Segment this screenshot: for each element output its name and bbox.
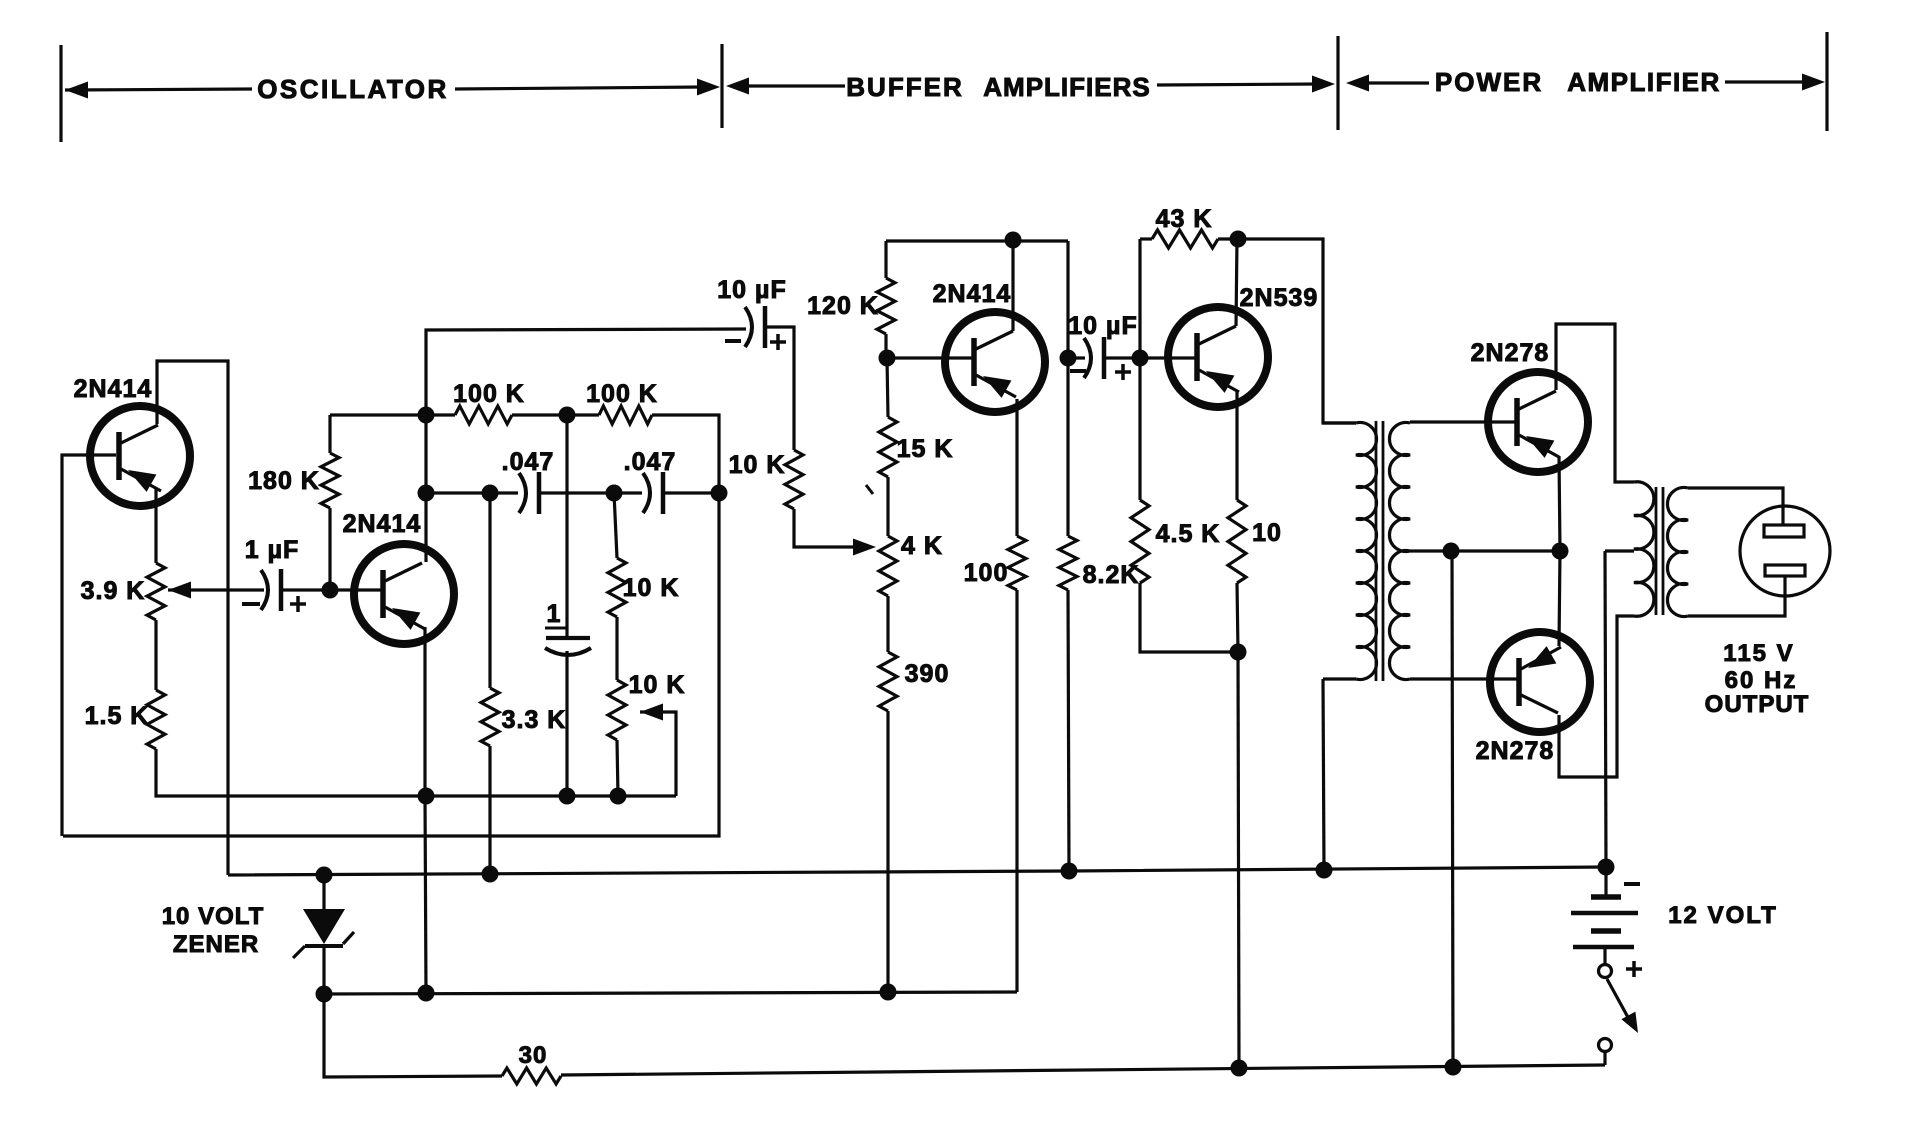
- node dot Q4 emitter node: [1230, 644, 1247, 661]
- node dot feedback corner: [711, 485, 728, 502]
- wire Q5 collector to T2: [1556, 324, 1634, 482]
- wire Q6 emitter up: [1559, 551, 1560, 646]
- resistor 3.3K: [481, 688, 499, 746]
- wire switch to rail5: [1603, 1052, 1606, 1065]
- wire between 100Ks: [512, 413, 599, 416]
- wire phase-shift line: [426, 491, 518, 494]
- resistor 180K: [321, 415, 339, 590]
- node dot T1 primary bottom: [1316, 862, 1333, 879]
- wire 10K to 4K wiper: [794, 509, 853, 547]
- label 2N278 (Q6): [1476, 737, 1555, 765]
- label 115 V: [1723, 640, 1794, 667]
- node dot Q3 collector rail: [1005, 232, 1022, 249]
- svg-text:10 µF: 10 µF: [717, 276, 786, 304]
- wiper arrow 4K: [853, 539, 876, 556]
- wire 1cap to ground rail: [565, 651, 568, 796]
- resistor 15K: [879, 417, 897, 477]
- label OUTPUT: [1705, 691, 1810, 718]
- label 3.3 K: [502, 706, 567, 734]
- resistor 4.5K: [1131, 500, 1149, 583]
- transistor Q3 2N414: [945, 312, 1045, 412]
- svg-text:AMPLIFIER: AMPLIFIER: [1567, 67, 1721, 97]
- wiper arrow 10K pot: [640, 704, 676, 797]
- wire 100 to rail4 corner: [1015, 590, 1018, 992]
- label 2N278 (Q5): [1471, 339, 1550, 367]
- wire rail5 left: [324, 994, 502, 1077]
- wire bias divider: [887, 358, 888, 417]
- node dot 8.2K bottom: [1061, 863, 1078, 880]
- resistor 390: [879, 652, 897, 711]
- node dot rail1 Q2e: [418, 788, 435, 805]
- wire rail5 right: [561, 1065, 1605, 1075]
- node dot rail5 Q4: [1231, 1060, 1248, 1077]
- wire Q1 emitter: [154, 489, 157, 563]
- resistor 120K: [877, 278, 895, 334]
- node dot 100K top: [418, 407, 435, 424]
- node dot rail5 CT: [1445, 1059, 1462, 1076]
- svg-text:120 K: 120 K: [807, 292, 879, 320]
- label 100 K (left): [453, 380, 525, 408]
- node dot 8.2K tap: [1060, 350, 1077, 367]
- wire 120K drop: [884, 241, 887, 278]
- label minus 10uF1: [725, 339, 741, 343]
- label 10 uF (first): [717, 276, 786, 304]
- svg-text:POWER: POWER: [1435, 67, 1543, 97]
- label minus 10uF2: [1070, 369, 1086, 373]
- switch terminal lower: [1599, 1039, 1612, 1052]
- label 4 K: [901, 532, 943, 560]
- node dot Q2 collector: [418, 485, 435, 502]
- svg-text:3.3 K: 3.3 K: [502, 706, 567, 734]
- transistor Q4 2N539: [1168, 307, 1268, 407]
- label plus battery: [1626, 961, 1642, 977]
- capacitor .047 (right): [643, 472, 663, 514]
- wire T1 primary bottom to rail: [1323, 679, 1324, 870]
- svg-text:4.5 K: 4.5 K: [1156, 520, 1221, 548]
- svg-text:1.5 K: 1.5 K: [85, 702, 150, 730]
- wire Q4 collector up: [1236, 239, 1237, 326]
- wire center tap to rail5: [1452, 551, 1453, 1067]
- svg-text:AMPLIFIERS: AMPLIFIERS: [983, 72, 1150, 102]
- label minus battery: [1624, 882, 1640, 886]
- node dot Q4 base: [1132, 350, 1149, 367]
- svg-text:2N414: 2N414: [74, 375, 153, 403]
- label 10 uF (second): [1068, 312, 1137, 340]
- wire 15K to 4K: [886, 477, 889, 536]
- node dot center tap 2: [1552, 543, 1569, 560]
- power span right arrow: [1725, 74, 1825, 91]
- zener diode 10V: [293, 875, 354, 994]
- label 10 K (lower): [629, 671, 686, 699]
- wire Q5 emitter down: [1559, 456, 1560, 551]
- node dot 3.3K top: [482, 485, 499, 502]
- wire Q4 base lead: [1140, 356, 1197, 359]
- resistor 100: [1008, 536, 1026, 590]
- svg-text:100 K: 100 K: [453, 380, 525, 408]
- svg-text:1 µF: 1 µF: [245, 536, 300, 564]
- resistor 43K: [1152, 230, 1218, 248]
- svg-text:15 K: 15 K: [897, 435, 954, 463]
- label OSCILLATOR: [257, 74, 449, 104]
- transformer T2 core: [1656, 487, 1663, 615]
- resistor 100K (right): [599, 406, 652, 424]
- wire T1 sec bottom to Q6 base: [1410, 677, 1518, 680]
- node dot Q4 collector rail: [1230, 231, 1247, 248]
- label 100: [964, 559, 1009, 587]
- wire Q3 collector up: [1011, 241, 1014, 331]
- wire T1 sec top to Q5 base: [1410, 420, 1516, 423]
- wire rail4: [324, 992, 1017, 994]
- wire between 10Ks: [615, 617, 618, 680]
- resistor 8.2K: [1059, 536, 1077, 590]
- oscillator span right arrow: [455, 79, 720, 96]
- wire 10K string vertical: [614, 493, 617, 558]
- section boundary line 2: [720, 44, 723, 128]
- wire T2 primary center tap: [1605, 549, 1634, 552]
- svg-text:115 V: 115 V: [1723, 640, 1794, 667]
- node dot rail1 1cap: [559, 788, 576, 805]
- svg-text:OSCILLATOR: OSCILLATOR: [257, 74, 449, 104]
- svg-text:12 VOLT: 12 VOLT: [1668, 902, 1778, 929]
- wire Q2 base lead: [330, 588, 383, 591]
- label 15 K: [897, 435, 954, 463]
- label 10 (Q4): [1252, 519, 1282, 547]
- label 1 with underline: [545, 600, 566, 628]
- potentiometer 4K: [879, 536, 897, 596]
- label BUFFER AMPLIFIERS: [846, 72, 1150, 102]
- resistor 30: [502, 1068, 561, 1084]
- label 2N414 (Q1): [74, 375, 153, 403]
- wire 10 to node: [1237, 583, 1238, 652]
- wire 4.5K vertical: [1138, 358, 1141, 500]
- node A dot (Q2 base): [322, 582, 339, 599]
- svg-text:OUTPUT: OUTPUT: [1705, 691, 1810, 718]
- svg-text:2N278: 2N278: [1471, 339, 1550, 367]
- node dot Q3 base: [879, 350, 896, 367]
- output socket slot upper: [1764, 525, 1804, 537]
- svg-text:10: 10: [1252, 519, 1282, 547]
- stray mark: [866, 485, 873, 494]
- svg-text:100: 100: [964, 559, 1009, 587]
- power span left arrow: [1346, 75, 1429, 92]
- label .047 (left): [502, 448, 555, 476]
- node dot 10K top: [606, 485, 623, 502]
- oscillator span left arrow: [65, 82, 252, 99]
- transformer T1 core: [1376, 421, 1383, 681]
- output socket circle: [1740, 506, 1830, 596]
- wire 43K lead left: [1140, 237, 1152, 240]
- label plus 10uF1: [770, 334, 786, 350]
- label 390: [905, 660, 950, 688]
- node dot zener bottom: [316, 986, 333, 1003]
- node dot rail4 390: [880, 984, 897, 1001]
- battery 12V: [1571, 867, 1638, 964]
- svg-text:2N414: 2N414: [343, 510, 422, 538]
- transistor Q5 2N278: [1488, 372, 1588, 472]
- wire cap1 to cap2: [541, 491, 642, 494]
- label 2N414 (Q3): [933, 280, 1012, 308]
- wire bias line y415: [330, 413, 455, 416]
- label 120 K: [807, 292, 879, 320]
- node dot center tap 1: [1443, 543, 1460, 560]
- wire Q2 emitter down: [423, 627, 426, 796]
- label 2N539: [1240, 284, 1319, 312]
- wire 8.2K vertical: [1066, 358, 1069, 536]
- transistor Q2 2N414: [354, 544, 454, 644]
- potentiometer 10K (lower): [608, 680, 626, 740]
- node dot between 100Ks: [559, 407, 576, 424]
- transistor Q6 2N278: [1490, 632, 1590, 732]
- node dot 3.3K bottom: [482, 866, 499, 883]
- label 4.5 K: [1156, 520, 1221, 548]
- transformer T2 secondary: [1667, 488, 1688, 617]
- wire 3.9K to 1.5K: [154, 620, 157, 690]
- wire 43K node to T1: [1238, 239, 1356, 423]
- wire Q2 emitter to rail4: [425, 796, 426, 993]
- wire 1cap vertical: [565, 415, 568, 638]
- label 3.9 K: [81, 577, 146, 605]
- wire 4.5K to emitter node: [1140, 583, 1238, 652]
- svg-text:2N278: 2N278: [1476, 737, 1555, 765]
- wire 4K to 390: [886, 596, 889, 652]
- output socket slot lower: [1765, 565, 1805, 576]
- wire 10K pot to rail: [617, 740, 618, 796]
- svg-text:10 VOLT: 10 VOLT: [162, 903, 265, 930]
- capacitor 10uF (second): [1068, 337, 1104, 379]
- transistor Q1 2N414: [90, 406, 190, 506]
- svg-text:4 K: 4 K: [901, 532, 943, 560]
- label 1.5 K: [85, 702, 150, 730]
- wire Q4 node to rail5: [1238, 652, 1239, 1068]
- capacitor 1uF: [261, 569, 281, 611]
- wire T2 sec bottom to socket: [1688, 576, 1785, 616]
- label 10 K (buffer): [729, 451, 786, 479]
- svg-text:2N414: 2N414: [933, 280, 1012, 308]
- label 8.2K: [1083, 561, 1140, 589]
- wire T2 sec top to socket: [1688, 488, 1783, 526]
- wire 390 to rail4: [886, 711, 889, 992]
- node dot rail4 Q2e: [418, 985, 435, 1002]
- svg-text:.047: .047: [502, 448, 555, 476]
- wire Q2 collector up: [426, 329, 746, 562]
- label 2N414 (Q2): [343, 510, 422, 538]
- transformer T1 primary: [1323, 423, 1377, 680]
- wire 10uF1 to 10K: [767, 327, 794, 450]
- resistor 10K (buffer): [785, 450, 803, 509]
- capacitor 10uF (first): [745, 306, 765, 348]
- label plus 10uF2: [1115, 364, 1131, 380]
- section boundary line right: [1825, 32, 1828, 131]
- wire cap2 to corner: [665, 491, 719, 494]
- svg-text:60 Hz: 60 Hz: [1725, 667, 1798, 694]
- wire top rail buffer: [886, 239, 1068, 242]
- svg-text:10 µF: 10 µF: [1068, 312, 1137, 340]
- svg-text:390: 390: [905, 660, 950, 688]
- svg-text:3.9 K: 3.9 K: [81, 577, 146, 605]
- wire center tap to battery: [1605, 551, 1606, 867]
- svg-text:.047: .047: [624, 448, 677, 476]
- node dot rail1 10K: [610, 788, 627, 805]
- wiper arrow 3.9K: [168, 582, 264, 599]
- node dot battery minus: [1598, 859, 1615, 876]
- label 100 K (right): [586, 380, 658, 408]
- label POWER AMPLIFIER: [1435, 67, 1721, 97]
- wire 43K to collector node: [1218, 237, 1238, 240]
- label 30: [519, 1042, 548, 1069]
- wire 120K to base node: [884, 334, 887, 358]
- wire 10uF2 to Q4 base: [1106, 356, 1140, 359]
- svg-text:10 K: 10 K: [629, 671, 686, 699]
- buffer span left arrow: [726, 78, 845, 95]
- svg-text:43 K: 43 K: [1156, 205, 1213, 233]
- label 10 K (upper): [623, 574, 680, 602]
- label 12 VOLT: [1668, 902, 1778, 929]
- section boundary line 3: [1336, 36, 1339, 130]
- wire 8.2K to zener rail: [1068, 590, 1069, 871]
- svg-text:180 K: 180 K: [248, 467, 320, 495]
- label 60 Hz: [1725, 667, 1798, 694]
- wire T1 sec center tap: [1410, 549, 1560, 552]
- svg-text:ZENER: ZENER: [173, 931, 259, 958]
- svg-text:2N539: 2N539: [1240, 284, 1319, 312]
- capacitor .047 (left): [519, 472, 539, 514]
- svg-text:30: 30: [519, 1042, 548, 1069]
- wire 3.3K to zener rail: [488, 746, 491, 874]
- resistor 1.5K: [147, 690, 165, 749]
- transformer T1 secondary: [1389, 423, 1410, 680]
- wire 100K right to corner: [652, 415, 719, 493]
- label 1 uF: [245, 536, 300, 564]
- wire 43K left drop: [1138, 239, 1141, 358]
- resistor 10K (upper): [608, 558, 626, 617]
- buffer span right arrow: [1157, 76, 1335, 93]
- transformer T2 primary: [1634, 482, 1654, 617]
- wire 3.3K vertical: [488, 493, 491, 688]
- switch arm: [1607, 979, 1638, 1033]
- wire Q6 collector to T2: [1559, 616, 1634, 777]
- wire feedback down-left: [63, 493, 719, 836]
- wire Q1 collector loop: [157, 361, 228, 875]
- wire Q4 emitter down: [1235, 392, 1238, 500]
- switch terminal upper: [1599, 965, 1612, 978]
- svg-text:10 K: 10 K: [623, 574, 680, 602]
- svg-text:100 K: 100 K: [586, 380, 658, 408]
- svg-text:10 K: 10 K: [729, 451, 786, 479]
- wire Q1 base to left rail: [62, 455, 116, 836]
- capacitor 1 (phase shift): [545, 638, 591, 655]
- node dot zener top: [316, 867, 333, 884]
- label ZENER: [173, 931, 259, 958]
- label 10 VOLT: [162, 903, 265, 930]
- label minus 1uF: [242, 602, 260, 606]
- resistor 10 (Q4 emitter): [1228, 500, 1246, 583]
- wire zener rail (rail3): [228, 867, 1606, 875]
- label 180 K: [248, 467, 320, 495]
- wire 1uF to node A: [283, 588, 330, 591]
- potentiometer 3.9K: [147, 563, 165, 620]
- label 43 K: [1156, 205, 1213, 233]
- section boundary line left: [59, 45, 62, 142]
- wire Q3 emitter down: [1015, 399, 1018, 536]
- resistor 100K (left): [455, 406, 512, 424]
- label plus 1uF: [290, 596, 306, 612]
- label .047 (right): [624, 448, 677, 476]
- svg-text:BUFFER: BUFFER: [846, 72, 963, 102]
- svg-text:1: 1: [547, 600, 562, 628]
- wire 1.5K to ground rail: [156, 749, 676, 796]
- wire top rail corner down: [1066, 241, 1069, 358]
- wire Q3 base lead: [887, 356, 974, 359]
